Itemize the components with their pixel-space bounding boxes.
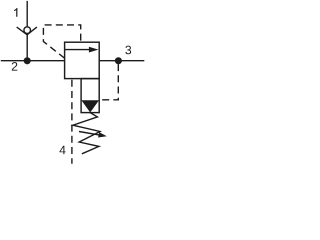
main valve body [65, 42, 100, 78]
wire port 3 horizontal [99, 60, 144, 62]
node 3 junction [115, 57, 122, 64]
check valve V1 ball [24, 27, 31, 34]
spring adjustment arrowhead [98, 132, 107, 137]
port 2 label [12, 62, 18, 71]
port 3 label [125, 46, 131, 55]
pilot dashed line from valve left edge up over to valve top [43, 25, 80, 58]
poppet box [81, 79, 99, 113]
poppet seat triangle [81, 100, 99, 112]
wire check valve to node 2 [26, 35, 28, 61]
spring [73, 113, 100, 154]
node 2 junction [24, 57, 31, 64]
check valve V1 seat [17, 27, 37, 35]
pilot dashed line node 3 to poppet box [99, 64, 118, 100]
pilot dashed line port 4 vertical [71, 80, 73, 164]
flow path arrowhead [89, 47, 99, 53]
wire port 2 horizontal [1, 60, 65, 62]
port 1 label [14, 8, 17, 17]
wire port 1 vertical [26, 1, 28, 26]
port 4 label [59, 146, 65, 154]
spring adjustment arrow line [79, 132, 101, 136]
flow path arrow line [65, 49, 90, 51]
